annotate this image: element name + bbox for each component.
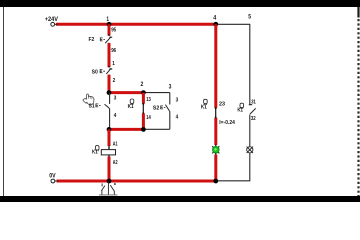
wire: coil to 0V rail (red) <box>108 155 110 159</box>
relay icon K1 (coil) <box>95 146 99 152</box>
svg-text:13: 13 <box>146 97 151 103</box>
relay icon K1 (23/24) <box>204 99 208 105</box>
wire: column 5 lower to lamp (black) <box>249 115 251 146</box>
S1 actuator E- <box>96 104 101 107</box>
svg-text:A1: A1 <box>113 141 118 147</box>
svg-text:S0: S0 <box>92 70 99 76</box>
wire: top rail extension to path 5 (black) <box>216 24 250 104</box>
indicator lamp H2 (off) <box>247 147 253 153</box>
svg-text:3: 3 <box>169 83 172 90</box>
terminal +24V <box>55 23 58 25</box>
wire: down to coil K1 (red) <box>108 129 111 146</box>
svg-text:K1: K1 <box>237 108 243 114</box>
wire: F2 to S0 (red) <box>108 43 110 44</box>
svg-text:95: 95 <box>111 28 117 34</box>
svg-text:2: 2 <box>141 81 144 88</box>
junction node 3 <box>107 90 112 95</box>
contact S1 (NO pushbutton, open) <box>109 93 111 104</box>
wire: block bottom rail red part <box>109 128 143 131</box>
svg-text:S2: S2 <box>153 106 160 112</box>
svg-text:4: 4 <box>213 15 216 22</box>
svg-text:1: 1 <box>106 16 109 23</box>
junction bottom mid <box>141 127 146 132</box>
wire: block bottom rail black part <box>143 128 169 130</box>
svg-text:+24V: +24V <box>45 16 59 23</box>
wire: lamp H2 to bottom (black) <box>216 153 250 181</box>
contact K1 13/14 (NO, closed state: straight) <box>142 103 144 114</box>
contact S0 (NC stop button, closed) <box>109 68 112 70</box>
junction node 2/K1 branch <box>141 90 146 95</box>
svg-text:I=-0.24: I=-0.24 <box>219 120 235 126</box>
junction lamp H1/0V <box>213 179 218 184</box>
svg-text:A2: A2 <box>113 160 118 166</box>
wire: top rail +24V (red, energized) <box>56 23 216 26</box>
relay coil K1 <box>101 150 115 155</box>
junction bottom left <box>107 127 112 132</box>
bottom black bar <box>0 196 360 202</box>
relay icon K1 (31/32) <box>240 103 244 109</box>
wire: block top rail red part <box>109 91 143 94</box>
junction at node 4 <box>213 22 218 27</box>
contact K1 31/32 (NC, opened) <box>249 104 252 106</box>
S2 actuator E- <box>161 106 166 109</box>
svg-text:0V: 0V <box>49 173 56 180</box>
wire: column1 rail to F2 (red) <box>108 24 111 35</box>
wire: S0 to node 3 (red) <box>108 75 110 76</box>
terminal 0V <box>55 180 58 182</box>
wire: lamp to 0V rail (red) <box>215 153 217 156</box>
right page-edge solid segment <box>357 7 359 18</box>
svg-text:32: 32 <box>251 116 256 122</box>
contact mirror of K1 below 0V rail <box>99 181 118 195</box>
top black bar <box>0 0 360 7</box>
contact K1 23/24 (NO, closed state: straight) <box>215 107 217 118</box>
junction at node 1 <box>107 22 112 27</box>
contact S2 (NO, open) branch <box>169 93 171 105</box>
svg-text:K1: K1 <box>201 105 208 111</box>
svg-text:23: 23 <box>219 101 226 107</box>
svg-text:96: 96 <box>111 48 117 54</box>
left window border <box>3 7 5 196</box>
svg-text:F2: F2 <box>89 37 95 43</box>
svg-text:S1: S1 <box>89 103 96 109</box>
svg-text:K1: K1 <box>92 150 98 156</box>
svg-text:K1: K1 <box>128 104 135 110</box>
wire: column 4 upper (red) <box>214 24 217 107</box>
svg-text:14: 14 <box>146 115 151 121</box>
svg-text:5: 5 <box>248 14 251 21</box>
wire: column 4 to lamp (red) <box>214 118 217 145</box>
junction coil/0V <box>107 179 112 184</box>
wire: K1 contact branch lower (red) <box>142 114 145 130</box>
contact F2 (NC, closed) <box>109 36 112 38</box>
hand cursor over S1 <box>83 94 94 105</box>
wire: block top rail black part <box>143 92 169 94</box>
right page-edge dashed line <box>357 19 359 196</box>
indicator lamp H1 (lit, green) <box>212 146 219 153</box>
wire: bottom 0V rail (red) <box>57 180 216 183</box>
wire: K1 contact branch upper (red) <box>142 93 145 104</box>
relay icon K1 (13/14) <box>130 99 134 105</box>
